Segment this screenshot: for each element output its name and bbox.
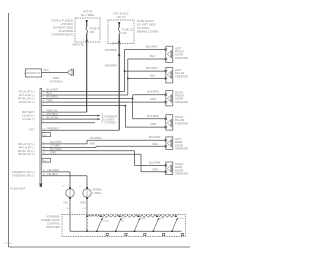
svg-text:OR ON: OR ON xyxy=(117,15,126,19)
fuse box 1 dashed (HOT AT ALL TIMES) xyxy=(75,18,100,42)
svg-text:BLU/PNK: BLU/PNK xyxy=(91,136,103,140)
svg-text:GRN/RED: GRN/RED xyxy=(105,64,117,68)
svg-text:BLK/WHT: BLK/WHT xyxy=(146,45,158,49)
svg-text:ORG: ORG xyxy=(152,168,158,172)
svg-text:ALL TIMES: ALL TIMES xyxy=(81,13,95,17)
wire RED/YEL vertical from fuse 1 xyxy=(86,42,88,112)
spiral cable connector left xyxy=(66,189,74,197)
svg-text:ORG: ORG xyxy=(152,142,158,146)
svg-text:15A: 15A xyxy=(90,30,95,34)
svg-text:FR LH SP (-): FR LH SP (-) xyxy=(19,93,35,97)
svg-text:YEL/BLU: YEL/BLU xyxy=(47,172,58,176)
svg-text:LINK BOX: LINK BOX xyxy=(61,22,74,26)
svg-text:GRN/RED: GRN/RED xyxy=(105,48,117,52)
svg-text:SPEAKER: SPEAKER xyxy=(175,100,188,104)
top rail with inline resistors xyxy=(87,215,89,217)
svg-text:NEXT: NEXT xyxy=(159,218,165,220)
svg-text:BLU/RED: BLU/RED xyxy=(50,147,62,151)
svg-text:OF ENGINE: OF ENGINE xyxy=(58,29,73,33)
fuse box 2 dashed (HOT IN ACC OR ON) xyxy=(108,20,134,44)
bus 3 FR RH SP(+) xyxy=(132,98,134,100)
svg-text:RED/YEL: RED/YEL xyxy=(72,42,84,46)
svg-text:(AT RIGHT SIDE: (AT RIGHT SIDE xyxy=(53,26,73,30)
svg-text:TWEETER: TWEETER xyxy=(175,74,188,78)
vertical resistor R0 xyxy=(86,217,87,228)
svg-text:YEL: YEL xyxy=(63,201,69,205)
speaker 2 left pillar tweeter xyxy=(165,68,188,83)
svg-text:STEERING SW (+): STEERING SW (+) xyxy=(12,170,35,174)
bus 2 FR LH SP(-) xyxy=(127,59,129,95)
svg-text:BLU: BLU xyxy=(47,91,52,95)
audio unit connector bar xyxy=(40,89,42,187)
svg-text:ANTENNA IN: ANTENNA IN xyxy=(24,71,40,75)
svg-text:BLK/RED: BLK/RED xyxy=(47,95,59,99)
svg-text:BLU/ORG: BLU/ORG xyxy=(47,115,59,119)
svg-text:RR RH SP (+): RR RH SP (+) xyxy=(18,149,35,153)
svg-text:BEHIND COVER): BEHIND COVER) xyxy=(137,29,158,33)
wire into bottom rail xyxy=(69,215,71,232)
svg-text:HOT IN ACC: HOT IN ACC xyxy=(113,12,128,16)
speaker 5 left rear door speaker xyxy=(165,137,188,151)
svg-text:SPEAKER: SPEAKER xyxy=(175,56,188,60)
svg-text:BATTERY: BATTERY xyxy=(22,110,34,114)
svg-text:FR LH SP (+): FR LH SP (+) xyxy=(18,90,34,94)
svg-text:BLK/WHT: BLK/WHT xyxy=(146,66,158,70)
svg-text:LT GRN: LT GRN xyxy=(50,144,60,148)
brace to interior lights system xyxy=(101,114,103,123)
svg-text:PREV: PREV xyxy=(140,218,146,220)
svg-text:STEERING: STEERING xyxy=(46,214,60,218)
svg-text:CABLE: CABLE xyxy=(93,191,102,195)
svg-text:YEL/GRN: YEL/GRN xyxy=(47,168,59,172)
connector id box xyxy=(42,158,51,162)
speaker 3 right front door speaker xyxy=(165,90,188,106)
svg-text:RED/YEL: RED/YEL xyxy=(47,108,59,112)
svg-text:AUDIO UNIT: AUDIO UNIT xyxy=(10,187,26,191)
audio unit bottom arrow xyxy=(39,184,42,188)
svg-text:STEERING SW (-): STEERING SW (-) xyxy=(12,174,34,178)
wire GRN/RED vertical from fuse 2 xyxy=(118,44,120,131)
svg-text:SPIRAL: SPIRAL xyxy=(93,188,103,192)
svg-text:GRN: GRN xyxy=(150,97,156,101)
svg-text:ANTENNA: ANTENNA xyxy=(50,80,63,84)
svg-text:TYP05B: TYP05B xyxy=(4,243,12,245)
svg-text:ACC: ACC xyxy=(29,128,35,132)
svg-text:GRN: GRN xyxy=(150,122,156,126)
svg-text:FUSE 41: FUSE 41 xyxy=(90,27,101,31)
svg-text:ORG: ORG xyxy=(89,141,95,145)
svg-text:FUSE & FUSIBLE: FUSE & FUSIBLE xyxy=(51,19,73,23)
ground id box G51 xyxy=(42,133,51,137)
rod antenna symbol xyxy=(68,69,73,76)
svg-text:GRN/RED: GRN/RED xyxy=(47,126,59,130)
speaker 4 right pillar tweeter xyxy=(165,115,188,130)
svg-text:BLU: BLU xyxy=(150,54,155,58)
switch SW2 xyxy=(116,219,121,230)
svg-text:ILLUMI (-): ILLUMI (-) xyxy=(22,117,34,121)
svg-text:BLU/PNK: BLU/PNK xyxy=(149,161,161,165)
page frame bottom xyxy=(9,246,191,248)
wire BLK antenna lead xyxy=(42,71,68,73)
switch SW5 xyxy=(172,219,177,230)
svg-text:FUSE BLOCK: FUSE BLOCK xyxy=(137,19,154,23)
svg-text:SWITCHES: SWITCHES xyxy=(46,225,60,229)
speaker 6 right rear door speaker xyxy=(165,162,188,176)
svg-text:ROD: ROD xyxy=(53,76,59,80)
svg-text:CONTROL: CONTROL xyxy=(47,221,61,225)
spiral cable connector right xyxy=(83,189,91,197)
svg-text:RR LH SP (-): RR LH SP (-) xyxy=(19,145,35,149)
svg-text:TWEETER: TWEETER xyxy=(175,121,188,125)
svg-text:BLU: BLU xyxy=(150,74,155,78)
page frame left xyxy=(8,13,10,247)
svg-text:RR LH SP (+): RR LH SP (+) xyxy=(18,142,35,146)
wire into top rail xyxy=(86,215,88,218)
svg-text:FR RH SP (-): FR RH SP (-) xyxy=(19,100,35,104)
svg-text:SPEAKER: SPEAKER xyxy=(175,147,188,151)
switch SW4 xyxy=(153,219,158,230)
svg-text:RR RH SP (-): RR RH SP (-) xyxy=(18,152,34,156)
svg-text:ORG: ORG xyxy=(80,201,86,205)
terminal squares below rail xyxy=(106,233,108,235)
svg-text:ORG: ORG xyxy=(50,150,56,154)
speaker 1 left front door speaker xyxy=(165,46,188,62)
bus 1 FR LH SP(+) xyxy=(124,50,126,92)
antenna in box xyxy=(25,69,41,77)
svg-text:FUSE 32: FUSE 32 xyxy=(122,28,133,32)
svg-text:HOT AT: HOT AT xyxy=(83,10,93,14)
switch SW1 xyxy=(97,219,102,230)
svg-text:ILLUMI (+): ILLUMI (+) xyxy=(22,114,35,118)
wire GRN/RED to audio unit pin 10 xyxy=(42,129,120,131)
svg-text:(AT LEFT SIDE: (AT LEFT SIDE xyxy=(137,22,156,26)
steering wheel switches dashed box xyxy=(62,215,186,237)
svg-text:SYSTEM: SYSTEM xyxy=(105,120,117,124)
fuse F1 xyxy=(86,21,88,27)
svg-text:SPEAKER: SPEAKER xyxy=(175,172,188,176)
svg-text:COMPARTMENT): COMPARTMENT) xyxy=(51,33,73,37)
svg-text:WHEEL AUDIO: WHEEL AUDIO xyxy=(41,218,60,222)
svg-text:BLU/WHT: BLU/WHT xyxy=(47,88,59,92)
bottom rail xyxy=(70,230,182,232)
svg-text:BLK/RED: BLK/RED xyxy=(148,90,160,94)
svg-text:2P TAN: 2P TAN xyxy=(112,41,121,45)
svg-text:DOWN: DOWN xyxy=(102,221,109,223)
svg-text:MODE: MODE xyxy=(178,218,185,220)
svg-text:FR RH SP (+): FR RH SP (+) xyxy=(18,97,35,101)
svg-text:BLK/RED: BLK/RED xyxy=(148,114,160,118)
svg-text:BLU/PNK: BLU/PNK xyxy=(149,135,161,139)
svg-text:PNK/BLU: PNK/BLU xyxy=(47,112,59,116)
svg-text:10A: 10A xyxy=(122,31,127,35)
bus 4 tweeter return xyxy=(125,105,127,107)
fuse F2 xyxy=(118,23,120,28)
svg-text:GRN: GRN xyxy=(47,98,53,102)
rail tap dots xyxy=(100,215,102,217)
switch SW3 xyxy=(135,219,140,230)
svg-text:BLK: BLK xyxy=(44,68,49,72)
svg-text:OF DASH,: OF DASH, xyxy=(137,26,150,30)
svg-text:BLU/PNK: BLU/PNK xyxy=(50,140,62,144)
